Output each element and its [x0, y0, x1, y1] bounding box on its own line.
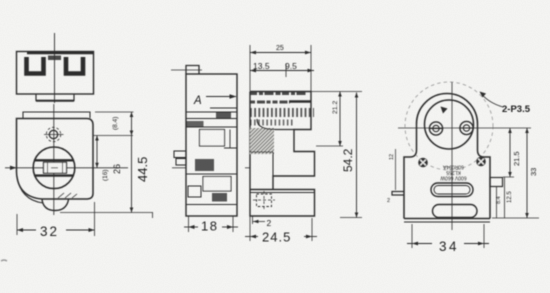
- dim 12.5 line: [504, 177, 506, 218]
- right view bottom second line: [404, 221, 490, 223]
- section hook curve: [257, 119, 294, 130]
- front dim line 26: [96, 136, 98, 168]
- right tab: [490, 178, 503, 187]
- section lower block top double line: [250, 192, 315, 194]
- side dark latch right: [216, 112, 231, 119]
- rating text block (upside down): [440, 164, 466, 181]
- lamp tube dashed circle: [405, 82, 493, 170]
- front dim ext line bottom: [60, 212, 153, 214]
- side internal line 2: [186, 126, 237, 128]
- left ext vertical: [395, 149, 397, 190]
- section hatch blob left: [250, 128, 274, 154]
- top view center contact blob: [48, 56, 61, 61]
- side internal band: [186, 111, 237, 113]
- dim 34 line: [407, 243, 432, 245]
- section ext verticals: [249, 45, 251, 91]
- rotation marker arrow: [441, 107, 448, 114]
- dim 8.4 line: [496, 187, 498, 219]
- upper slot inner: [434, 186, 470, 195]
- front circle lower chord: [35, 174, 73, 176]
- right view horizontal centerline: [398, 127, 531, 129]
- leader 2-P3.5: [481, 94, 503, 108]
- side dark rect bottom: [212, 193, 227, 202]
- front view bottom boss: [42, 200, 69, 211]
- pin hole left: [429, 122, 442, 135]
- side internal line 4: [186, 204, 237, 206]
- section knurl row: [250, 108, 314, 117]
- dim 25 line: [250, 52, 311, 54]
- section rough strip 2: [250, 101, 290, 104]
- dim 54.2 line: [356, 93, 358, 218]
- side dark blob middle: [195, 159, 214, 171]
- right view vertical centerline: [451, 82, 453, 230]
- arrow A: [206, 96, 236, 98]
- section knurl row 2: [250, 120, 293, 126]
- dim 2 ext tick: [252, 216, 254, 224]
- section strip 2 solid end: [289, 100, 311, 103]
- side white pocket 2: [203, 177, 231, 192]
- right view inner circle: [425, 100, 474, 149]
- side internal line 3: [186, 173, 237, 175]
- pin hole right: [460, 121, 473, 134]
- top view left U slot: [27, 57, 44, 74]
- screw left: [418, 158, 428, 168]
- screw right: [476, 157, 486, 167]
- front view inner corner arc: [17, 176, 43, 203]
- lower notch: [433, 205, 478, 218]
- side dark marks left lower: [188, 186, 201, 197]
- front dim ext line top: [95, 111, 134, 113]
- side view tab centerline: [171, 69, 202, 71]
- right view dome arc: [417, 94, 478, 125]
- upper slot outer: [431, 183, 473, 197]
- front dim line 44.5: [131, 112, 133, 213]
- side view outline: [186, 74, 237, 216]
- side centerline tick: [172, 167, 186, 169]
- front dim ext line screw center: [93, 135, 133, 137]
- front view top lip: [23, 112, 90, 119]
- top view bottom tab: [36, 94, 74, 101]
- top view outline: [17, 52, 94, 95]
- top view right U slot: [66, 57, 83, 74]
- side dark blob left: [187, 121, 204, 127]
- side terminal rect 2: [176, 159, 186, 166]
- front dim line 8.4: [130, 131, 134, 136]
- right view dome left side and shoulder: [404, 124, 417, 219]
- side right column marks: [224, 130, 237, 149]
- dim 24.5 ext lines: [249, 216, 251, 241]
- dim 24.5 line: [245, 236, 258, 238]
- section inner vertical: [272, 152, 274, 176]
- side terminal rect 1: [174, 151, 186, 158]
- dim 34 ext lines: [411, 224, 413, 248]
- front view outline: [17, 119, 94, 200]
- dim 32 ext right: [94, 202, 96, 236]
- front large circle: [33, 147, 75, 189]
- front dim ext hook: [152, 213, 154, 219]
- dim 32 line: [17, 229, 36, 231]
- section rough strip 1: [250, 92, 307, 95]
- section dashed centerlines: [253, 191, 275, 210]
- right ext y218: [492, 217, 539, 219]
- dim 21.2 bottom ext: [316, 145, 343, 147]
- front circle upper chord: [35, 159, 73, 161]
- front small screw dashed ring: [46, 127, 60, 141]
- front slot inner ticks: [48, 162, 63, 173]
- front small screw crosshair: [44, 134, 64, 136]
- dim 2 leader: [253, 221, 265, 223]
- front view vertical centerline: [53, 104, 55, 215]
- front center slot rect: [44, 162, 67, 173]
- dim 18 line: [184, 226, 198, 228]
- front view corner hatch scribble: [58, 193, 77, 198]
- dim 18 ext lines: [188, 216, 190, 232]
- side view top tab: [186, 66, 199, 75]
- section left centerline tick: [245, 167, 250, 169]
- dim 21.2 line: [339, 92, 341, 147]
- left tab: [392, 192, 404, 196]
- side white pocket 1: [200, 130, 225, 147]
- dim 33 line: [526, 128, 528, 218]
- dim 21.2 top ext: [311, 91, 362, 93]
- dim 54.2 bottom ext: [340, 217, 362, 219]
- right view dome right side and shoulder: [478, 124, 491, 219]
- right view bottom edge: [404, 218, 490, 220]
- dim 13.5 / 9.5 line: [250, 70, 314, 72]
- section inner line: [250, 151, 273, 153]
- dim 21.5 line: [509, 128, 511, 177]
- right ext y177: [503, 176, 514, 178]
- front small screw circle: [49, 130, 57, 138]
- top view top edge thick: [27, 52, 93, 54]
- section dashed rect: [257, 194, 272, 207]
- section outline: [250, 92, 315, 217]
- stray mark bottom left: [1, 260, 7, 261]
- side internal line 1: [210, 107, 237, 109]
- front view horizontal centerline: [5, 167, 128, 169]
- top view centerline: [54, 33, 56, 103]
- divider tick: [285, 64, 287, 78]
- dim 32 ext left: [16, 214, 18, 235]
- centerline arrowhead at left edge: [10, 166, 17, 170]
